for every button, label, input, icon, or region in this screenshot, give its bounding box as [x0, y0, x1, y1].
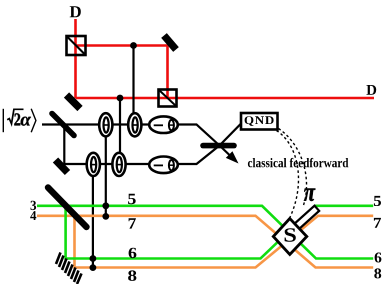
wire: green path input 3 to output 6	[37, 206, 373, 259]
node J4 on line 7	[102, 213, 109, 220]
ket input label sqrt(2)alpha	[3, 109, 36, 132]
output label 8	[374, 268, 381, 278]
beamsplitter BS2 bar at crossing	[203, 143, 234, 149]
mirror M2 left	[67, 95, 81, 109]
phase shifter PS1 theta	[99, 113, 112, 136]
wire: crossing output arrow (measurement)	[220, 146, 239, 164]
mirror M3 on row 2 corner	[56, 160, 68, 173]
dashed feedforward curve to S	[277, 131, 299, 218]
detector D2 label	[366, 85, 376, 95]
wire: control line from J1 to phase shifter PS2	[132, 46, 134, 119]
node J5 on line 6	[90, 255, 97, 262]
phase shifter PS2 theta	[128, 113, 141, 136]
node J3 on line 5	[102, 202, 109, 209]
output label 6	[375, 253, 382, 263]
output label 7	[374, 218, 381, 228]
label 5 mid	[128, 194, 136, 204]
input label 3	[31, 201, 37, 210]
node J2 on red wire lower	[117, 95, 124, 102]
dashed feedforward curve to pi plate	[279, 129, 307, 206]
output label 5	[374, 196, 381, 206]
node J6 on line 8	[90, 264, 97, 271]
phase shifter PS5 minus-theta row1	[149, 116, 178, 133]
wire: red beam vertical from detector D1 through BS-A down to mirror M2	[74, 19, 77, 98]
mirror M1 top-right	[164, 36, 176, 50]
wire: control line from PS1 down to lines 5,7	[105, 130, 107, 217]
wire: green path reflected down then to output 5	[66, 206, 374, 259]
wire: orange path reflected down then to output 7	[75, 216, 374, 268]
beamsplitter cube BS-B	[159, 90, 177, 107]
phase shifter PS4 theta row2	[112, 153, 125, 176]
label 6 mid	[129, 248, 137, 259]
squeezer gate S diamond	[273, 219, 307, 255]
wire: red beam horizontal top from BS-A to mirror M1	[76, 44, 168, 47]
phase shifter PS3 theta row2	[87, 153, 100, 176]
input label 4	[30, 211, 36, 220]
wire: control line from PS3 down to lines 6,8	[92, 170, 94, 268]
label 8 mid	[128, 270, 136, 281]
wire: reflected drop from BS1 to mirror M3	[63, 125, 65, 165]
wire: orange path input 4 to output 8	[37, 216, 373, 268]
half waveplate pi on output 5,7 arm	[294, 189, 319, 229]
beamsplitter cube BS-A	[67, 36, 86, 55]
node J1 on red wire top	[130, 42, 137, 49]
wire: control line from J2 to phase shifter PS4	[119, 98, 121, 158]
phase shifter PS6 minus-theta row2	[149, 157, 178, 174]
wire: mode 2 horizontal (row 2) into crossing BS2	[64, 146, 219, 165]
wire: red beam vertical right from mirror M1 to BS-B	[166, 46, 169, 99]
label 7 mid	[129, 218, 136, 228]
mirror M4 large on inputs 3,4	[48, 188, 87, 228]
wire: red beam horizontal from mirror M2 through BS-B to detector D2	[76, 97, 375, 100]
detector D1 label	[70, 6, 81, 17]
beamsplitter BS1 bar on input	[52, 114, 74, 136]
mirror M5 hatched bottom-left	[56, 253, 82, 284]
classical feedforward label	[248, 158, 349, 167]
wire: mode 1 horizontal (row 1) into crossing BS2	[42, 125, 220, 146]
QND box	[241, 113, 278, 130]
wire: crossing output up to QND	[220, 120, 246, 146]
